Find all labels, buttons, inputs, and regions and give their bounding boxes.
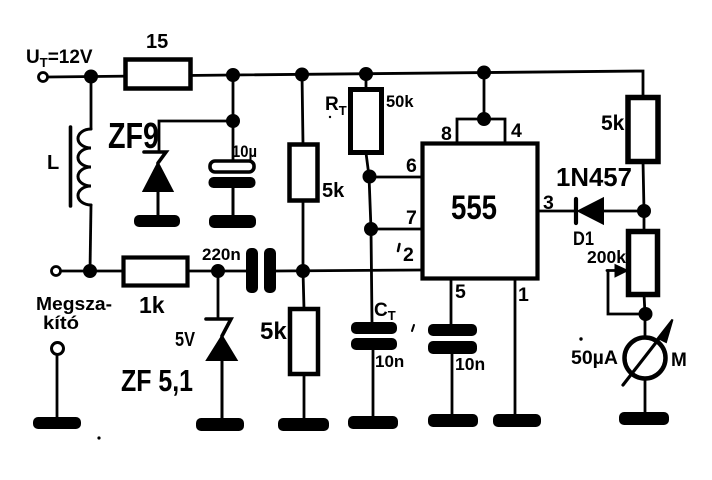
wire lower 5k branch xyxy=(303,271,304,309)
svg-text:kító: kító xyxy=(43,312,79,333)
wire xyxy=(603,210,644,213)
potentiometer 200k xyxy=(587,232,658,315)
svg-text:2: 2 xyxy=(403,244,414,266)
node N xyxy=(639,308,652,321)
capacitor 220n xyxy=(202,245,276,293)
resistor 5k upper xyxy=(290,145,346,203)
wire ZF5.1 branch xyxy=(217,271,220,317)
node I xyxy=(297,265,310,278)
label Megszakito xyxy=(36,293,112,333)
svg-text:15: 15 xyxy=(146,31,168,53)
ground xyxy=(33,417,81,429)
svg-text:10n: 10n xyxy=(375,352,404,371)
inductor L xyxy=(47,127,91,206)
ground xyxy=(348,416,398,429)
svg-text:7: 7 xyxy=(406,207,417,229)
svg-text:220n: 220n xyxy=(202,245,241,264)
svg-text:4: 4 xyxy=(511,120,522,142)
wire pin6 xyxy=(370,176,422,179)
wire speck marks xyxy=(97,436,100,439)
resistor 15 xyxy=(126,31,191,89)
resistor 1k xyxy=(124,258,188,319)
svg-text:ZF 5,1: ZF 5,1 xyxy=(121,363,193,398)
svg-text:Megsza-: Megsza- xyxy=(36,293,112,314)
wire xyxy=(643,211,646,231)
node L2 xyxy=(478,113,491,126)
node K xyxy=(365,223,378,236)
wire pin8-pin4 bracket xyxy=(457,119,505,143)
wire pin5 branch xyxy=(450,278,453,324)
zener ZF9 xyxy=(108,115,173,215)
svg-text:ZF9: ZF9 xyxy=(108,115,159,156)
wire xyxy=(451,354,454,414)
wire xyxy=(366,153,372,322)
svg-text:555: 555 xyxy=(451,189,497,227)
svg-text:10n: 10n xyxy=(455,354,485,374)
wire xyxy=(302,200,305,271)
svg-text:50µA: 50µA xyxy=(571,348,618,369)
svg-text:L: L xyxy=(47,152,59,174)
wire lower rail xyxy=(61,270,123,273)
wire xyxy=(644,294,645,337)
ground xyxy=(619,412,669,425)
wire xyxy=(483,72,486,119)
svg-text:6: 6 xyxy=(406,155,417,177)
ground xyxy=(428,414,478,427)
ground xyxy=(209,215,256,228)
terminal Megszakito upper xyxy=(52,267,61,276)
wire left branch down xyxy=(90,77,93,129)
wire xyxy=(276,270,422,271)
ground xyxy=(196,418,244,431)
svg-text:1k: 1k xyxy=(139,292,165,318)
IC U1 555 xyxy=(423,144,538,279)
node D xyxy=(360,68,373,81)
wire xyxy=(644,379,647,412)
resistor RT 50k xyxy=(325,90,414,153)
node F xyxy=(227,115,240,128)
meter M 50µA xyxy=(571,320,687,386)
node A xyxy=(85,70,98,83)
diode D1 1N457 xyxy=(556,162,632,250)
svg-text:UT=12V: UT=12V xyxy=(26,47,93,70)
wire RT branch xyxy=(365,73,368,89)
svg-text:5k: 5k xyxy=(260,318,287,345)
wire pin7 xyxy=(371,228,422,231)
svg-text:5k: 5k xyxy=(601,112,625,135)
svg-text:10µ: 10µ xyxy=(232,142,257,161)
ground xyxy=(493,414,541,427)
capacitor CT xyxy=(351,300,404,371)
capacitor 10n xyxy=(428,324,485,374)
capacitor C 10µ xyxy=(209,142,258,215)
wire xyxy=(372,350,375,416)
wire pin1 branch xyxy=(514,278,517,414)
svg-text:M: M xyxy=(671,350,687,371)
node C xyxy=(296,68,309,81)
wire ZF9 tap xyxy=(159,75,233,161)
node B xyxy=(227,69,240,82)
zener ZF5.1 xyxy=(121,319,237,418)
svg-text:1: 1 xyxy=(518,284,529,306)
node E xyxy=(478,66,491,79)
resistor 5k right xyxy=(601,98,658,162)
wire pin3 xyxy=(537,210,575,213)
ground xyxy=(134,215,180,227)
node H xyxy=(212,265,225,278)
node G xyxy=(84,265,97,278)
node M2 xyxy=(638,205,651,218)
wire xyxy=(188,270,246,273)
wire xyxy=(90,205,91,271)
terminal UT input xyxy=(39,73,48,82)
node J xyxy=(363,170,376,183)
terminal Megszakito lower xyxy=(52,343,64,355)
svg-text:50k: 50k xyxy=(386,93,414,111)
wire xyxy=(56,355,59,418)
svg-text:8: 8 xyxy=(441,123,452,145)
svg-text:200k: 200k xyxy=(587,247,626,267)
svg-text:5: 5 xyxy=(455,281,466,303)
wire top rail xyxy=(48,71,643,97)
wire xyxy=(643,161,644,211)
resistor 5k lower xyxy=(260,309,318,374)
wire xyxy=(303,374,306,418)
ground xyxy=(278,418,329,431)
svg-text:5V: 5V xyxy=(175,329,196,351)
wire upper 5k branch xyxy=(302,74,303,144)
svg-text:1N457: 1N457 xyxy=(556,162,632,192)
svg-text:5k: 5k xyxy=(322,180,345,202)
